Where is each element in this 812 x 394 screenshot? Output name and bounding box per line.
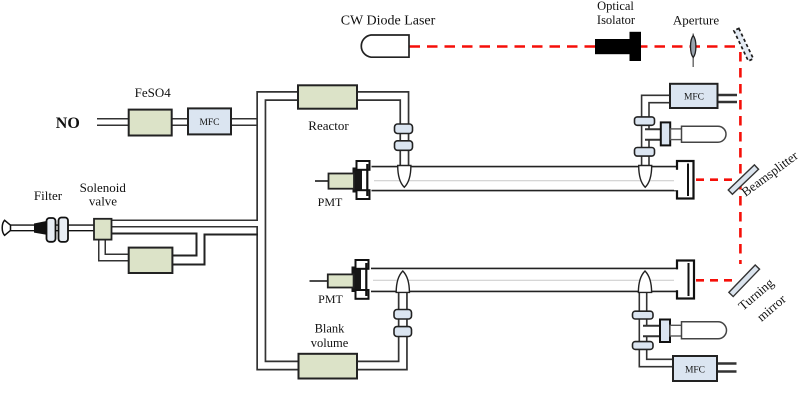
wire solenoid valve main outlet pipe — [111, 220, 260, 228]
MFC1 box — [188, 108, 231, 134]
filter disc A — [47, 218, 56, 242]
wire MFC2 right outlet lines — [717, 94, 737, 96]
cell 1 left flange — [353, 161, 372, 200]
reactor box — [298, 85, 357, 108]
turning mirror — [729, 265, 760, 297]
svg-text:CW Diode Laser: CW Diode Laser — [341, 14, 436, 29]
wire bypass thin line valve to box right — [112, 234, 197, 256]
svg-text:Blank: Blank — [315, 322, 346, 336]
wire MFC3 right outlet lines — [717, 362, 737, 364]
svg-text:valve: valve — [89, 194, 117, 209]
optical isolator block — [630, 32, 642, 61]
svg-text:volume: volume — [311, 336, 349, 350]
fitting disc bottom-left 1 — [394, 310, 412, 320]
svg-text:FeSO4: FeSO4 — [135, 85, 172, 100]
wire NO inlet pipe — [96, 118, 130, 126]
cell 2 tube (bottom blank cell) — [371, 268, 687, 291]
cell 1 tube (top absorption cell) — [371, 167, 686, 191]
fitting disc top-left 2 — [395, 141, 413, 151]
wire bypass thin line box to riser — [173, 235, 259, 265]
fitting disc top-right 2 — [635, 148, 655, 157]
cell 2 left flange — [352, 260, 371, 300]
wire reactor outlet down to top-left injector — [357, 96, 404, 166]
svg-text:Filter: Filter — [34, 188, 63, 203]
PMT1 box — [329, 174, 355, 189]
laser body — [361, 35, 409, 57]
svg-text:PMT: PMT — [318, 292, 343, 306]
laser beam dashed horizontal — [410, 45, 739, 48]
FeSO4 box — [129, 110, 172, 136]
PMT2 box — [328, 274, 354, 287]
wire MFC2 left pipe down to top-right injector — [645, 99, 671, 166]
nozzle top-left injector — [398, 166, 411, 188]
svg-text:NO: NO — [56, 115, 80, 132]
aperture lens — [691, 36, 696, 58]
wire main riser pipe: reactor feed down to blank volume — [261, 96, 299, 366]
blank volume box — [299, 354, 358, 379]
svg-text:MFC: MFC — [685, 366, 705, 376]
svg-text:Aperture: Aperture — [673, 13, 719, 28]
svg-text:Optical: Optical — [597, 0, 634, 13]
fitting disc bottom-right 2 — [633, 342, 654, 350]
wire MFC to riser pipe — [231, 118, 264, 126]
beamsplitter — [728, 165, 758, 194]
svg-text:MFC: MFC — [684, 93, 704, 103]
fitting disc bottom-left 2 — [394, 327, 412, 337]
svg-text:Isolator: Isolator — [597, 13, 636, 27]
filter disc B — [59, 218, 69, 242]
wire solenoid valve drop to bypass box — [102, 238, 130, 258]
gauge valve body bottom — [660, 320, 670, 343]
bypass box — [129, 248, 173, 273]
cell 1 right flange — [674, 161, 694, 199]
steering mirror top right — [734, 28, 753, 61]
gauge valve body top — [661, 122, 670, 145]
wire bottom T-branch to gauge valve — [643, 325, 662, 338]
gauge bulb neck top — [671, 129, 683, 140]
gauge bulb neck bottom — [670, 325, 682, 336]
laser beam dashed vertical — [739, 52, 742, 264]
nozzle bottom-left injector — [396, 271, 409, 292]
svg-text:Reactor: Reactor — [308, 118, 349, 133]
fitting disc bottom-right 1 — [633, 311, 654, 319]
wire bottom-right injector shaft down to MFC3 — [643, 292, 674, 363]
cell 2 right flange — [674, 261, 694, 299]
solenoid valve box — [94, 219, 112, 240]
wire top T-branch to gauge valve — [645, 128, 662, 141]
wire PMT1 lead — [315, 180, 329, 182]
fitting disc top-left 1 — [395, 124, 413, 134]
svg-text:PMT: PMT — [318, 195, 343, 209]
beam into top cell — [696, 178, 736, 181]
filter inlet horn — [2, 220, 10, 235]
MFC2 box — [670, 84, 718, 108]
aperture stem — [692, 34, 694, 68]
svg-text:MFC: MFC — [199, 118, 219, 128]
optical isolator body — [595, 39, 631, 54]
gauge bulb top — [682, 126, 727, 142]
MFC3 box — [673, 356, 717, 381]
nozzle bottom-right injector — [638, 271, 651, 292]
wire PMT2 lead — [310, 280, 329, 282]
wire filter inlet tube — [10, 224, 95, 231]
gauge bulb bottom — [682, 322, 727, 339]
beam into bottom cell — [696, 279, 736, 282]
wire blank volume outlet up to bottom-left injector — [357, 292, 403, 366]
wire FeSO4 to MFC pipe — [171, 118, 190, 126]
filter ferrule black — [34, 221, 47, 235]
fitting disc top-right 1 — [635, 117, 655, 125]
nozzle top-right injector — [639, 166, 652, 188]
